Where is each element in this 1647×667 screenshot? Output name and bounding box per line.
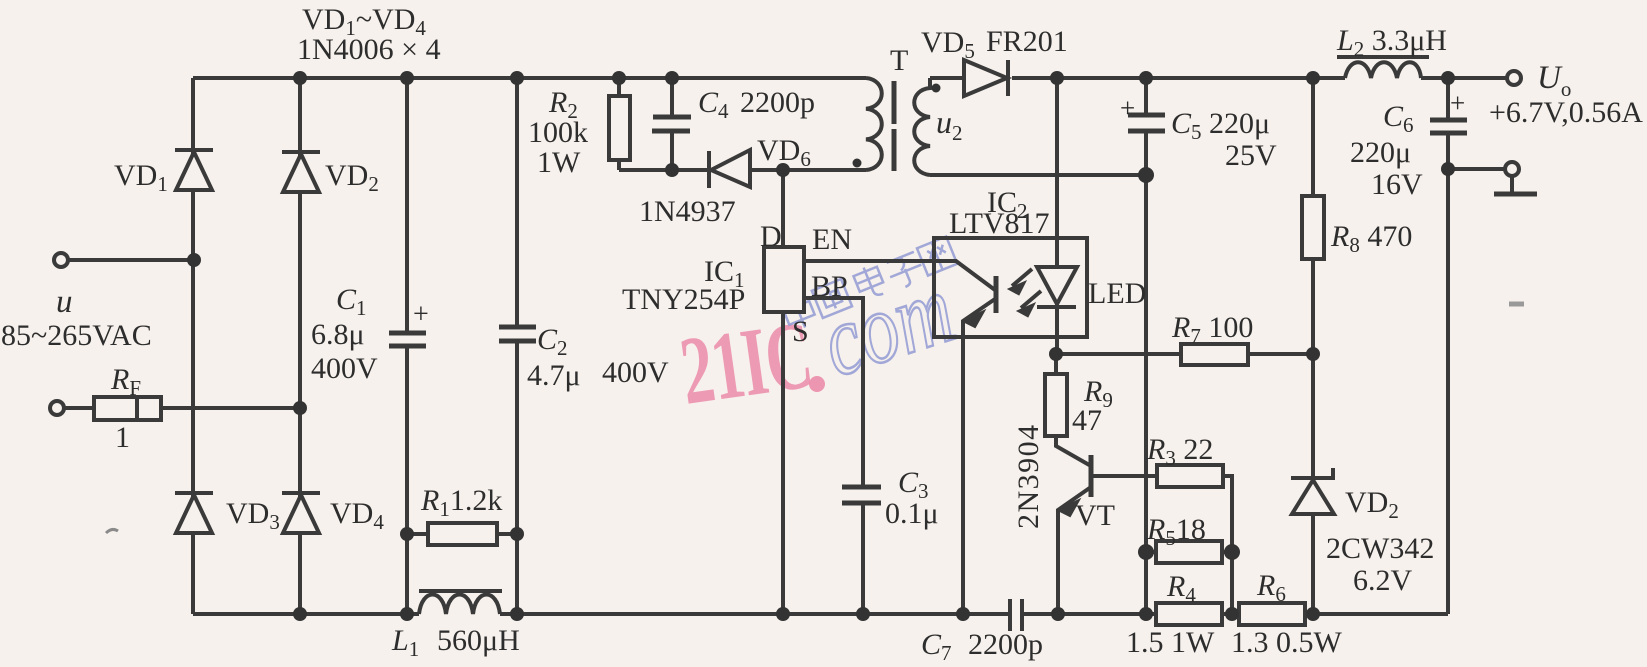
svg-text:+: + xyxy=(1120,93,1135,123)
svg-text:EN: EN xyxy=(812,223,852,256)
svg-text:2CW342: 2CW342 xyxy=(1326,532,1434,565)
svg-text:1.5 1W: 1.5 1W xyxy=(1126,626,1215,659)
svg-text:TNY254P: TNY254P xyxy=(622,283,745,316)
svg-text:R8 470: R8 470 xyxy=(1330,220,1412,257)
svg-text:0.1μ: 0.1μ xyxy=(885,497,939,530)
svg-text:6.2V: 6.2V xyxy=(1353,564,1413,597)
svg-text:25V: 25V xyxy=(1225,139,1277,172)
svg-text:FR201: FR201 xyxy=(986,25,1068,58)
svg-text:2200p: 2200p xyxy=(740,86,815,119)
svg-text:+: + xyxy=(413,299,429,330)
svg-text:u: u xyxy=(56,284,73,320)
svg-text:16V: 16V xyxy=(1371,168,1423,201)
svg-text:2N3904: 2N3904 xyxy=(1012,423,1045,529)
svg-text:C72200p: C72200p xyxy=(921,628,1043,665)
svg-text:LTV817: LTV817 xyxy=(949,207,1050,240)
svg-text:400V: 400V xyxy=(311,352,378,385)
svg-text:220μ: 220μ xyxy=(1350,136,1411,169)
svg-text:85~265VAC: 85~265VAC xyxy=(1,319,152,352)
svg-text:100k: 100k xyxy=(528,116,588,149)
svg-text:1: 1 xyxy=(115,421,130,454)
svg-text:+6.7V,0.56A: +6.7V,0.56A xyxy=(1489,96,1643,129)
svg-text:D: D xyxy=(760,220,782,253)
svg-text:1N4006 × 4: 1N4006 × 4 xyxy=(297,33,441,66)
svg-text:BP: BP xyxy=(811,270,848,303)
svg-text:L2 3.3μH: L2 3.3μH xyxy=(1336,24,1447,61)
svg-text:R3 22: R3 22 xyxy=(1146,433,1213,470)
svg-text:R518: R518 xyxy=(1146,513,1206,550)
svg-text:+: + xyxy=(1450,88,1465,118)
svg-text:4.7μ: 4.7μ xyxy=(527,359,581,392)
svg-text:400V: 400V xyxy=(602,356,669,389)
svg-text:1.3 0.5W: 1.3 0.5W xyxy=(1231,626,1343,659)
svg-text:T: T xyxy=(890,44,908,77)
svg-text:LED: LED xyxy=(1088,277,1146,310)
svg-text:1N4937: 1N4937 xyxy=(639,195,736,228)
svg-text:1W: 1W xyxy=(537,146,581,179)
svg-text:6.8μ: 6.8μ xyxy=(311,318,365,351)
svg-text:R11.2k: R11.2k xyxy=(420,484,502,521)
svg-text:560μH: 560μH xyxy=(437,624,520,657)
svg-text:VT: VT xyxy=(1075,499,1115,532)
svg-text:47: 47 xyxy=(1072,404,1102,437)
svg-text:R7 100: R7 100 xyxy=(1171,311,1253,348)
svg-text:S: S xyxy=(792,315,809,348)
